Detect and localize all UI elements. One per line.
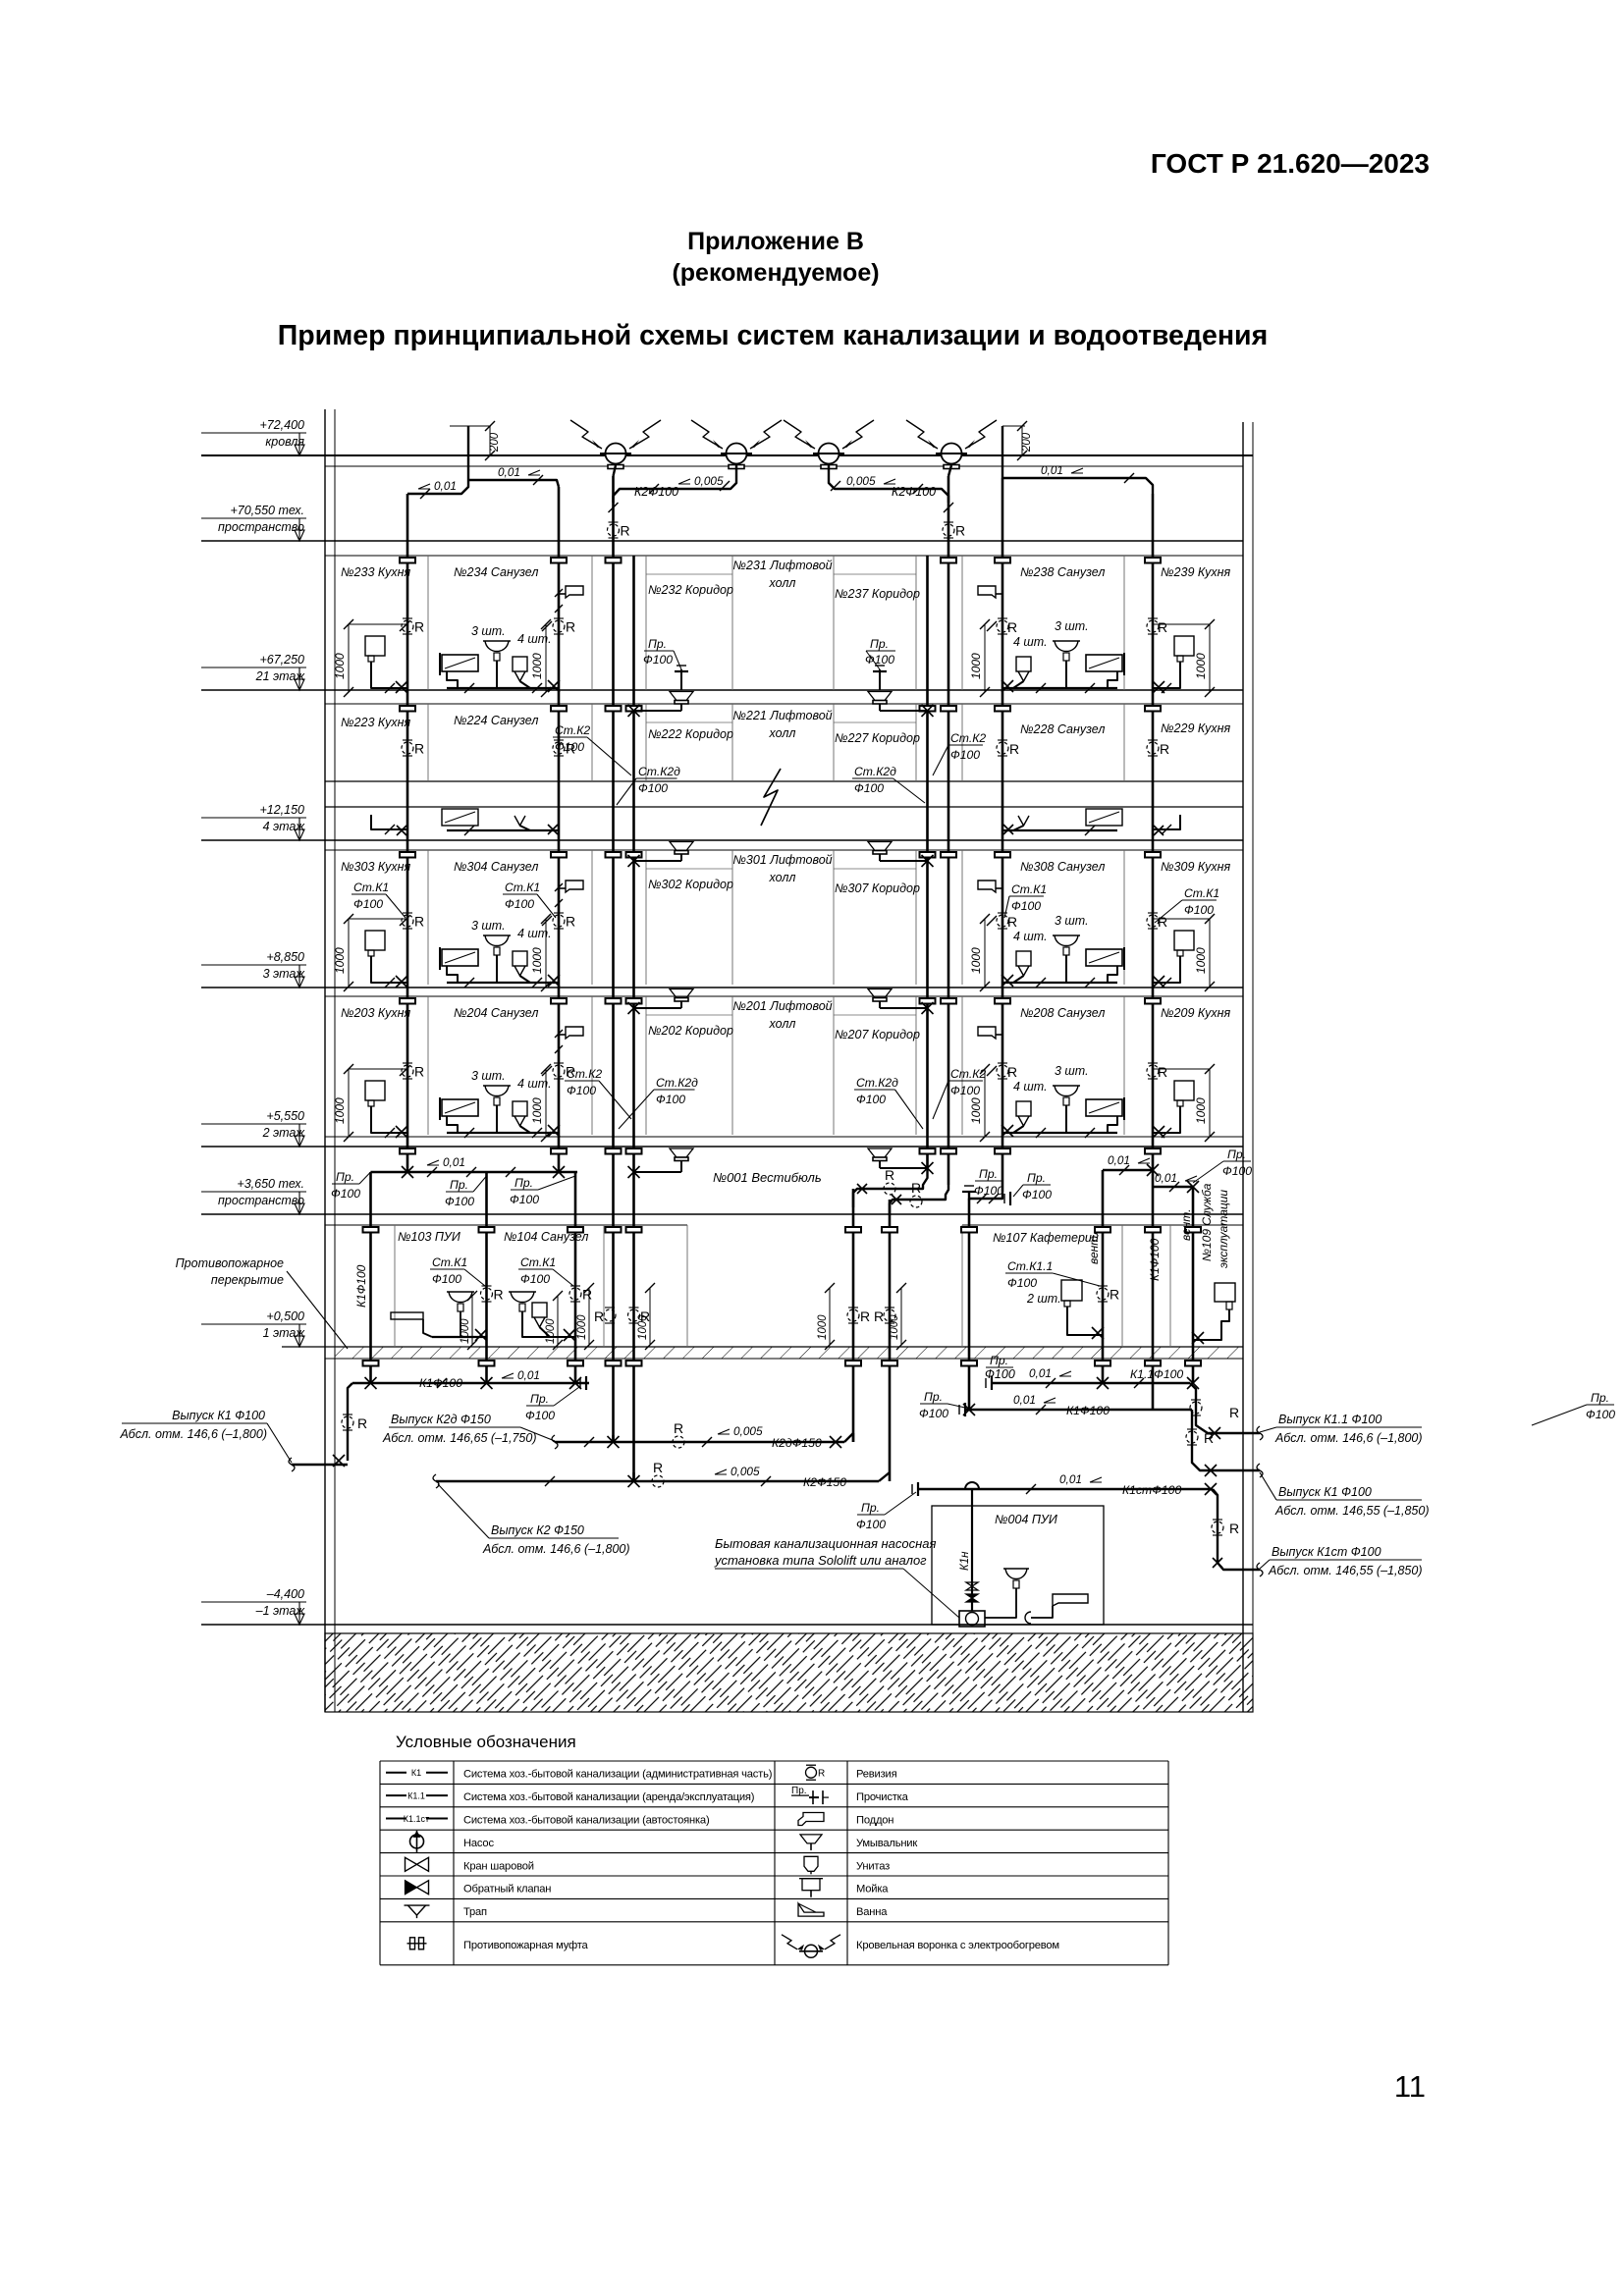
stack St.K2d right [926,556,929,1168]
joint tick [649,484,659,494]
sewage pump unit [959,1611,985,1627]
joint tick [555,883,563,891]
revision symbol R [997,618,1017,635]
svg-text:Пр.: Пр. [514,1176,533,1190]
joint tick [1205,619,1215,629]
svg-text:Мойка: Мойка [856,1884,889,1896]
bathtub right [1086,655,1122,671]
svg-text:Пр.: Пр. [924,1390,943,1404]
rain pipe K2F100 from drain 2 to left stack [614,465,737,503]
svg-text:№227 Коридор: №227 Коридор [835,731,920,745]
joint tick [532,978,542,988]
shower tray symbol [559,593,566,595]
stack St.K1.1 cafeteria [1102,1170,1105,1383]
svg-text:2 шт.: 2 шт. [1026,1292,1061,1306]
svg-text:холл: холл [769,1017,796,1031]
svg-text:Ст.К1: Ст.К1 [353,881,389,894]
svg-text:Выпуск К2д Ф150: Выпуск К2д Ф150 [391,1413,491,1426]
joint tick [987,1066,997,1076]
joint tick [1205,687,1215,697]
svg-text:№208 Санузел: №208 Санузел [1020,1006,1105,1020]
horizontal run left tech band [371,1171,578,1173]
svg-text:R: R [594,1308,604,1324]
toilet right [1016,657,1031,671]
pipe junction cross [553,1166,565,1178]
kitchen stack vent connection right [1002,478,1153,494]
svg-text:Ст.К2д: Ст.К2д [856,1076,898,1090]
cleanout symbol [962,1186,976,1192]
collector K1.1 F100 [992,1382,1190,1384]
joint tick [980,982,990,991]
K1 exit run right [1153,1409,1192,1411]
svg-text:1000: 1000 [530,1097,544,1124]
svg-text:перекрытие: перекрытие [211,1273,284,1287]
pipe coupling [882,1361,897,1366]
pipe coupling [845,1227,861,1233]
joint tick [1205,1064,1215,1074]
sanusel 104 toilet [532,1303,547,1317]
joint tick [1162,683,1171,693]
cleanout symbol [675,666,688,671]
legend symbol toilet [804,1856,818,1874]
pipe junction cross [1153,681,1164,693]
svg-text:Ф100: Ф100 [1022,1188,1052,1201]
joint tick [555,1045,563,1053]
svg-text:Ревизия: Ревизия [856,1769,897,1781]
room partitions [427,556,429,690]
washbasin [483,934,511,936]
revision symbol R [1147,740,1169,757]
sanusel right collector pipe [1002,1132,1117,1134]
stack St.K2 left [632,556,635,1481]
pipe coupling [1095,1361,1110,1366]
pipe junction cross [1003,825,1013,834]
pipe junction cross [922,855,934,867]
vent stack cafeteria [1192,1187,1195,1383]
pipe junction cross [1205,1465,1217,1476]
svg-text:+67,250: +67,250 [259,653,304,667]
joint tick [1169,1182,1179,1192]
svg-text:№237 Коридор: №237 Коридор [835,587,920,601]
legend symbol cleanout [791,1786,829,1804]
joint tick [831,481,840,491]
pipe coupling [606,1148,622,1154]
pipe coupling [400,852,415,858]
kitchen sink right [1174,636,1194,656]
washbasin [483,1085,511,1087]
svg-text:Пр.: Пр. [1227,1148,1246,1161]
svg-text:1000: 1000 [545,1318,557,1344]
svg-text:0,005: 0,005 [694,474,724,488]
revision symbol R [553,1063,575,1080]
joint tick [1124,473,1134,483]
svg-text:Кран шаровой: Кран шаровой [463,1860,534,1872]
sanusel collector pipe [447,1132,559,1134]
pipe junction cross [1209,1427,1220,1439]
svg-text:R: R [494,1287,504,1303]
pipe junction cross [892,1195,901,1204]
svg-text:Ф100: Ф100 [1222,1164,1252,1178]
svg-text:Ф100: Ф100 [525,1409,555,1422]
svg-text:Выпуск К1 Ф100: Выпуск К1 Ф100 [172,1409,265,1422]
pipe coupling [1145,852,1161,858]
svg-text:Ст.К2д: Ст.К2д [638,765,680,778]
kitchen sink right [1174,1081,1194,1100]
legend symbol revision [806,1765,826,1780]
shower tray symbol right [996,593,1002,595]
svg-text:установка типа Sololift или ан: установка типа Sololift или аналог [714,1553,927,1568]
svg-text:Противопожарное: Противопожарное [176,1256,284,1270]
joint tick [545,1476,555,1486]
svg-text:3 шт.: 3 шт. [471,919,506,933]
joint tick [464,826,474,835]
svg-text:№232 Коридор: №232 Коридор [648,583,733,597]
pipe junction cross [402,1166,413,1178]
svg-text:№004 ПУИ: №004 ПУИ [995,1513,1057,1526]
stack K2 lowered (vestibule) [889,1200,892,1481]
svg-text:Пр.: Пр. [1591,1391,1609,1405]
pipe junction cross [481,1377,493,1389]
pipe junction cross [1187,1181,1199,1193]
roof drain with electric heating [600,444,631,469]
joint tick [1085,826,1095,835]
kitchen sink [365,931,385,950]
joint tick [385,683,395,693]
svg-text:R: R [357,1415,367,1431]
svg-text:№107 Кафетерий: №107 Кафетерий [993,1231,1099,1245]
legend symbol fire coupling [407,1938,427,1949]
joint tick [344,1064,353,1074]
svg-text:№307 Коридор: №307 Коридор [835,881,920,895]
svg-text:3 шт.: 3 шт. [1055,1064,1089,1078]
svg-text:Ст.К2: Ст.К2 [950,731,986,745]
svg-text:0,005: 0,005 [731,1465,760,1478]
sanusel stack vent connection left [468,480,559,487]
svg-text:№233 Кухня: №233 Кухня [341,565,410,579]
pump room tray fixture [1053,1594,1088,1606]
joint tick [532,1128,542,1138]
run 0,01 to vent 2 [1153,1186,1193,1188]
pipe coupling [1145,558,1161,563]
lightning arrow (heated roof drain) [842,420,874,449]
technical floor slab +70,550 [201,540,1243,542]
PUI washbasin [447,1291,474,1293]
svg-text:№301 Лифтовой: №301 Лифтовой [732,853,832,867]
joint tick [1036,1128,1046,1138]
stack K1 right lowered [968,1201,971,1410]
pipe coupling [1145,706,1161,712]
svg-text:–4,400: –4,400 [266,1587,304,1601]
svg-text:Пр.: Пр. [870,637,889,651]
svg-text:Ф100: Ф100 [1184,903,1214,917]
joint tick [427,1167,437,1177]
joint tick [344,687,353,697]
pipe junction cross [830,1436,841,1448]
joint tick [1205,982,1215,991]
pipe junction cross [628,1166,640,1178]
stack St.K1 sanusel right [1001,478,1004,1192]
revision symbol R [402,1063,424,1080]
cleanout symbol [580,1376,586,1390]
legend symbol roof drain heated [799,1945,823,1957]
svg-text:№238 Санузел: №238 Санузел [1020,565,1105,579]
svg-text:Ф100: Ф100 [974,1184,1003,1198]
toilet [513,657,527,671]
svg-text:К1стФ100: К1стФ100 [1122,1483,1181,1497]
cleanout symbol [986,1376,992,1390]
pipe junction cross [1205,1483,1217,1495]
svg-text:Ф100: Ф100 [432,1272,461,1286]
svg-text:Ст.К1.1: Ст.К1.1 [1007,1259,1053,1273]
svg-text:№234 Санузел: №234 Санузел [454,565,538,579]
pipe junction cross [396,681,407,693]
legend symbol ball valve [406,1857,429,1871]
pipe junction cross [922,1162,934,1174]
pipe coupling [920,998,936,1004]
pipe coupling [363,1361,379,1366]
bathtub [442,1099,478,1116]
joint tick [464,683,474,693]
svg-text:Выпуск К1ст Ф100: Выпуск К1ст Ф100 [1272,1545,1381,1559]
pipe coupling [551,852,567,858]
revision symbol R [1186,1429,1214,1446]
pipe coupling [626,852,642,858]
svg-text:Ф100: Ф100 [985,1367,1015,1381]
joint tick [555,589,563,597]
revision symbol R on horizontal pipe [910,1180,922,1207]
svg-text:0,005: 0,005 [846,474,876,488]
joint tick [944,503,953,512]
joint tick [1119,1165,1129,1175]
svg-text:К1н: К1н [959,1551,971,1571]
washbasin right [1053,640,1080,642]
svg-text:Пр.: Пр. [979,1167,998,1181]
stack St.K2 kitchen left [406,494,409,1172]
pipe coupling [1145,1227,1161,1233]
joint tick [1162,1128,1171,1138]
revision symbol R [1147,1063,1167,1080]
joint tick [533,475,543,485]
pipe junction cross [365,1377,377,1389]
svg-text:0,01: 0,01 [434,479,457,493]
svg-text:№201 Лифтовой: №201 Лифтовой [732,999,832,1013]
joint tick [609,503,619,512]
toilet right [1016,951,1031,966]
dimension lines kitchen [348,1069,350,1137]
roof drain with electric heating [721,444,752,469]
joint tick [485,451,495,460]
svg-text:№207 Коридор: №207 Коридор [835,1028,920,1041]
pipe junction cross [1153,1126,1164,1138]
svg-text:Ф100: Ф100 [950,748,980,762]
svg-text:№303 Кухня: №303 Кухня [341,860,410,874]
svg-text:R: R [566,914,575,930]
revision symbol R [402,913,424,930]
pipe junction cross [548,975,560,987]
svg-text:Унитаз: Унитаз [856,1860,890,1872]
roof drain with electric heating [813,444,844,469]
svg-text:Приложение В: Приложение В [687,228,864,255]
dimension 200 left vent [489,426,491,455]
svg-text:Ф100: Ф100 [567,1084,596,1097]
revision symbol R on horizontal pipe [652,1460,664,1487]
joint tick [1036,1405,1046,1415]
joint tick [541,1064,551,1074]
pipe coupling [845,1361,861,1366]
pipe coupling [606,1227,622,1233]
dimension lines kitchen right [1209,919,1211,987]
dimension lines sanusel [545,1069,547,1137]
joint tick [542,621,552,631]
lightning arrow (heated roof drain) [570,420,602,449]
svg-text:Пр.: Пр. [530,1392,549,1406]
svg-text:1000: 1000 [333,1097,347,1124]
joint tick [1162,825,1171,834]
pipe junction cross [922,705,934,717]
svg-text:0,01: 0,01 [443,1155,465,1169]
svg-text:Абсл. отм. 146,6 (–1,800): Абсл. отм. 146,6 (–1,800) [119,1427,267,1441]
collector K2d F150 [555,1441,844,1443]
svg-text:Ф100: Ф100 [854,781,884,795]
ground hatch band [325,1633,1253,1712]
legend symbol bathtub [798,1903,824,1916]
dimension 1000 [825,1283,835,1350]
svg-text:Прочистка: Прочистка [856,1791,909,1803]
pipe coupling [568,1361,583,1366]
svg-text:–1 этаж: –1 этаж [255,1604,306,1618]
floor slab 2 floor +5,550 [325,1136,1243,1138]
sanusel collector pipe [447,982,559,984]
svg-text:Система хоз.-бытовой канализац: Система хоз.-бытовой канализации (админи… [463,1769,773,1781]
rain pipe K2F100 from drain 3 to right stack [829,465,948,503]
svg-text:№001 Вестибюль: №001 Вестибюль [713,1170,822,1185]
sanusel collector pipe [447,687,559,689]
svg-text:Пр.: Пр. [450,1178,468,1192]
joint tick [1026,1484,1036,1494]
svg-text:Ст.К2: Ст.К2 [555,723,590,737]
K1.1 exit run right [1190,1383,1260,1433]
joint tick [980,914,990,924]
svg-text:R: R [1229,1521,1239,1536]
svg-text:Ф100: Ф100 [856,1518,886,1531]
shower tray symbol [559,887,566,889]
toilet [513,1101,527,1116]
svg-text:Ф100: Ф100 [505,897,534,911]
svg-text:0,01: 0,01 [517,1368,540,1382]
svg-text:1000: 1000 [530,653,544,679]
rain stack below drain 4 [948,465,951,476]
joint tick [1036,683,1046,693]
joint tick [1036,978,1046,988]
stack K2d lowered (vestibule) [852,1189,855,1442]
svg-text:Кровельная воронка с электрооб: Кровельная воронка с электрообогревом [856,1940,1059,1951]
svg-text:R: R [621,523,630,539]
svg-text:R: R [860,1308,870,1324]
kitchen sink [365,636,385,656]
vestibule jog K2d [853,1168,928,1207]
svg-text:1000: 1000 [576,1314,588,1340]
joint tick [385,1128,395,1138]
svg-text:Ф100: Ф100 [1011,899,1041,913]
svg-text:0,005: 0,005 [733,1424,763,1438]
svg-text:1000: 1000 [530,947,544,974]
svg-text:Пр.: Пр. [990,1354,1008,1367]
svg-text:№309 Кухня: №309 Кухня [1161,860,1230,874]
pipe coupling [606,998,622,1004]
joint tick [555,605,563,613]
svg-text:0,01: 0,01 [1108,1153,1130,1167]
svg-text:R: R [1158,1064,1167,1080]
svg-text:R: R [1009,741,1019,757]
pipe junction cross [548,825,558,834]
pipe coupling [1185,1361,1201,1366]
joint tick [1017,451,1027,460]
building left wall [324,409,326,1712]
dimension lines sanusel [545,919,547,987]
pipe junction cross [396,1126,407,1138]
lightning arrow (heated roof drain) [629,420,661,449]
svg-text:Умывальник: Умывальник [856,1838,917,1849]
shower tray symbol right [996,1034,1002,1036]
pipe coupling [961,1227,977,1233]
pipe junction cross [548,680,560,692]
svg-text:К1.1: К1.1 [407,1791,425,1801]
svg-text:R: R [566,619,575,635]
svg-text:Система хоз.-бытовой канализац: Система хоз.-бытовой канализации (аренда… [463,1791,755,1803]
joint tick [702,1437,712,1447]
svg-text:1000: 1000 [1194,947,1208,974]
svg-text:+72,400: +72,400 [259,418,304,432]
svg-text:№223 Кухня: №223 Кухня [341,716,410,729]
collector K1F100 under left block [352,1382,589,1384]
toilet right [1016,1101,1031,1116]
revision symbol R [997,1063,1017,1080]
cafeteria sink [1061,1280,1082,1301]
revision symbol R [553,618,575,635]
svg-text:3 шт.: 3 шт. [471,1069,506,1083]
pipe junction cross [922,1002,934,1014]
stack St.K1 sanusel left [558,487,561,1172]
pipe junction cross [1192,1332,1204,1344]
lightning arrow (heated roof drain) [691,420,723,449]
joint tick [977,1194,987,1203]
svg-text:200: 200 [1021,432,1033,453]
svg-text:Выпуск К2 Ф150: Выпуск К2 Ф150 [491,1523,584,1537]
svg-text:№229 Кухня: №229 Кухня [1161,721,1230,735]
svg-text:200: 200 [489,432,501,453]
svg-text:+5,550: +5,550 [266,1109,304,1123]
pipe junction cross [1001,975,1013,987]
svg-text:0,01: 0,01 [1155,1171,1177,1185]
sanusel stack right bottom cleanouts [969,1192,1002,1201]
pipe coupling [551,998,567,1004]
svg-text:4 шт.: 4 шт. [1013,635,1048,649]
svg-text:+70,550 тех.: +70,550 тех. [230,504,304,517]
svg-text:Ст.К1: Ст.К1 [1184,886,1219,900]
svg-text:№203 Кухня: №203 Кухня [341,1006,410,1020]
joint tick [1162,978,1171,988]
svg-text:1000: 1000 [637,1314,649,1340]
joint tick [464,1128,474,1138]
pipe coupling [941,706,956,712]
joint tick [1134,1378,1144,1388]
room 109 sink [1215,1283,1235,1302]
joint tick [1085,683,1095,693]
schematic break band [325,780,1243,782]
joint tick [400,1066,409,1076]
joint tick [980,687,990,697]
riser K1F100 far left [369,1172,372,1383]
